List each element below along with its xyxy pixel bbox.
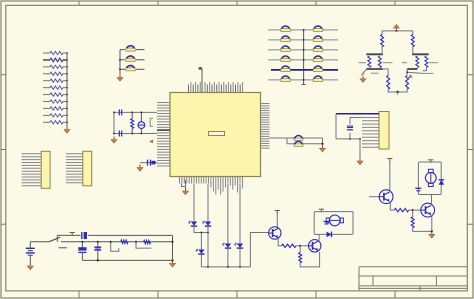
keypad row wire 5 bbox=[271, 69, 338, 71]
wire C4 bbox=[145, 162, 157, 164]
pin bracket wire bbox=[150, 118, 153, 126]
button bus wire bbox=[119, 50, 121, 75]
wire LED1 bbox=[193, 184, 195, 222]
transistor Q7 bottom bar bbox=[407, 68, 417, 70]
wire right drop bbox=[171, 235, 173, 260]
resistor R11 bbox=[416, 56, 419, 68]
ground (J2) bbox=[357, 158, 363, 165]
wire LED4 bbox=[227, 184, 229, 244]
transistor Q7 top bar bbox=[412, 53, 429, 55]
transistor Q6 top bar bbox=[366, 53, 383, 55]
wire Y1 top bbox=[114, 111, 157, 113]
power bar (top branch) bbox=[70, 233, 75, 236]
resistor R2 bbox=[299, 246, 302, 263]
wire Q2 emitter loop bbox=[300, 252, 319, 267]
switch SW bbox=[49, 237, 67, 248]
transistor Q2 bbox=[308, 240, 321, 252]
ground (RST) bbox=[320, 145, 326, 152]
keypad row wire 1 bbox=[268, 29, 338, 31]
wire RST 2 bbox=[304, 138, 323, 145]
wire button S3 bbox=[120, 68, 145, 70]
capacitor C8 bbox=[82, 232, 173, 239]
resistor R1 bbox=[282, 244, 302, 247]
wire rail to Q1 bbox=[250, 233, 268, 267]
wire LED1 down bbox=[194, 227, 208, 233]
wire battery top bbox=[30, 242, 49, 249]
wire J2 gnd bbox=[359, 139, 361, 158]
keypad row wire 3 bbox=[268, 49, 338, 51]
transistor Q4 bbox=[379, 190, 393, 204]
RN1 bus wire bbox=[66, 52, 68, 126]
wire RST 1 bbox=[270, 137, 294, 139]
LED D3 bbox=[196, 249, 205, 254]
wire Q4 collector bbox=[389, 159, 391, 191]
motor loop M2 bbox=[418, 162, 441, 195]
push button S1 bbox=[126, 46, 135, 51]
keypad row wire 4 bbox=[268, 59, 338, 61]
bottom rail bbox=[82, 259, 173, 261]
keypad button SW5B bbox=[313, 66, 322, 71]
wire Q5 collector bbox=[431, 195, 433, 205]
keypad button SW6A bbox=[281, 76, 290, 81]
capacitor C1 bbox=[119, 109, 121, 115]
U1 pin P-osc stub bbox=[199, 67, 202, 92]
wire Q7 base stub bbox=[402, 62, 438, 64]
capacitor C9 (electrolytic) bbox=[78, 242, 86, 261]
power port VSS (ladder) bbox=[64, 127, 70, 134]
U1 top pins bbox=[189, 82, 243, 93]
resistor R7 bbox=[387, 76, 390, 90]
ground (buttons) bbox=[117, 75, 123, 82]
keypad row wire 2 bbox=[268, 39, 338, 41]
pin arrow marker bbox=[149, 140, 153, 144]
LED D1 bbox=[188, 221, 197, 226]
MCU U1 body bbox=[170, 93, 261, 177]
resistor network RN1 bbox=[43, 51, 67, 124]
power bar (M1) bbox=[319, 209, 324, 212]
transistor Q5 bbox=[420, 203, 434, 217]
keypad button SW4A bbox=[281, 56, 290, 61]
wire Y1 bottom bbox=[114, 133, 157, 135]
wire LED3 up bbox=[200, 232, 209, 250]
wire Q4 base bbox=[369, 196, 380, 198]
U1 bottom pins bbox=[180, 177, 243, 195]
diode D7 bbox=[439, 180, 445, 185]
ground (Q5) bbox=[429, 231, 435, 238]
resistor R8 bbox=[406, 76, 409, 90]
keypad button SW3B bbox=[313, 46, 322, 51]
resistor R3 bbox=[394, 208, 414, 211]
wire LED3 down bbox=[200, 255, 202, 267]
wire LED5 down bbox=[239, 249, 241, 267]
transistor Q6 bottom bar bbox=[366, 68, 383, 70]
J3 pins bbox=[22, 154, 42, 186]
wire Q6 base stub bbox=[359, 62, 393, 64]
ground (crystal) bbox=[111, 137, 117, 144]
wire J2 left bbox=[335, 114, 337, 139]
wire LED5 bbox=[239, 184, 241, 244]
motor loop M1 bbox=[314, 212, 353, 235]
keypad row wire 6 bbox=[268, 79, 338, 81]
wire RST 3 bbox=[287, 138, 324, 145]
wire J2 top bbox=[336, 113, 379, 115]
wire LED2 down bbox=[207, 227, 209, 267]
push button S2 bbox=[126, 56, 135, 61]
resistor R9 bbox=[368, 56, 371, 68]
wire ff rail bbox=[382, 30, 413, 32]
keypad button SW5A bbox=[281, 66, 290, 71]
power bar (M2) bbox=[428, 160, 433, 163]
push button S4 pole B bbox=[294, 141, 304, 146]
connector J3 body bbox=[41, 151, 50, 188]
wire Q2 collector bbox=[318, 234, 320, 240]
wire R1 to Q2 bbox=[300, 245, 308, 247]
wire Q1 collector bbox=[276, 211, 278, 228]
wire Q6 to R7 bbox=[383, 69, 388, 76]
resistor R12 bbox=[425, 56, 428, 68]
wire top branch bbox=[57, 235, 80, 241]
oscillator Y1 bbox=[138, 111, 145, 134]
transistor Q1 bbox=[268, 227, 281, 239]
capacitor C10 bbox=[94, 242, 101, 261]
wire button S1 bbox=[120, 49, 145, 51]
resistor R4 bbox=[411, 210, 414, 228]
resistor R10 bbox=[378, 56, 381, 68]
wire Y1 left bbox=[113, 111, 115, 134]
keypad button SW2B bbox=[313, 36, 322, 41]
LED D2 bbox=[202, 221, 211, 226]
J4 pins bbox=[66, 154, 83, 183]
ground (U1) bbox=[183, 188, 189, 195]
power bar (Q4) bbox=[387, 159, 392, 162]
U1 inner rect bbox=[209, 132, 225, 136]
wire LED4 down bbox=[227, 249, 229, 267]
LED bottom rail bbox=[201, 266, 250, 268]
wire ff bottom bbox=[388, 89, 407, 94]
keypad button SW3A bbox=[281, 46, 290, 51]
keypad button SW1B bbox=[313, 26, 322, 31]
power bar (Q1) bbox=[275, 211, 280, 214]
wire Q1 emitter bbox=[278, 238, 281, 246]
wire Q7 to R8 bbox=[406, 69, 408, 76]
ground (battery) bbox=[27, 263, 33, 270]
keypad button SW1A bbox=[281, 26, 290, 31]
ground (Q6) bbox=[360, 76, 366, 83]
battery B1 bbox=[26, 248, 35, 263]
cap marks M1 bbox=[324, 222, 330, 225]
keypad button SW6B bbox=[313, 76, 322, 81]
wire J2 mid bbox=[336, 138, 361, 140]
wire stub net 2 bbox=[136, 242, 151, 248]
ground (C4) bbox=[137, 165, 143, 172]
transistor Q7 emitter bbox=[407, 72, 433, 78]
keypad column wire bbox=[302, 29, 306, 85]
keypad button SW2A bbox=[281, 36, 290, 41]
wire C4 left bbox=[140, 162, 145, 164]
wire Q4 emitter bbox=[390, 202, 394, 210]
LED D5 bbox=[234, 243, 243, 248]
wire LED2 bbox=[207, 184, 209, 222]
resistor R6 bbox=[411, 31, 414, 54]
inductor L3 bbox=[131, 111, 134, 134]
motor M2 bbox=[425, 169, 436, 186]
wire button S2 bbox=[120, 59, 145, 61]
power port VCC (flip-flop) bbox=[394, 25, 400, 31]
wire Q5 emitter loop bbox=[413, 216, 433, 232]
J2 pins bbox=[362, 118, 379, 148]
inductor L2 bbox=[144, 240, 151, 243]
capacitor C5 bbox=[347, 118, 362, 139]
diode D6 bbox=[327, 232, 332, 238]
U1 right pins bbox=[261, 104, 270, 149]
keypad button SW4B bbox=[313, 56, 322, 61]
push button S3 bbox=[126, 65, 135, 70]
underline mark bbox=[138, 247, 152, 249]
push button S4 pole A bbox=[294, 136, 304, 141]
cap marks M2 bbox=[415, 188, 421, 191]
wire main rail bbox=[61, 241, 173, 243]
U1 left pins bbox=[157, 103, 170, 166]
wire gnd U1 bbox=[182, 180, 186, 188]
wire R3 to Q5 bbox=[413, 209, 421, 211]
transistor Q6 emitter bbox=[361, 70, 379, 76]
inductor L1 bbox=[121, 240, 128, 243]
connector J4 body bbox=[83, 151, 92, 186]
capacitor C4 bbox=[148, 160, 156, 166]
resistor R5 bbox=[381, 31, 384, 54]
connector J2 body bbox=[379, 112, 389, 150]
power port VD (rail) bbox=[170, 260, 176, 267]
wire stub net bbox=[111, 242, 119, 252]
motor M1 bbox=[326, 215, 343, 226]
title block bbox=[359, 267, 467, 291]
capacitor C2 bbox=[119, 131, 121, 137]
wire Q7 step bbox=[423, 68, 427, 71]
LED D4 bbox=[222, 243, 231, 248]
